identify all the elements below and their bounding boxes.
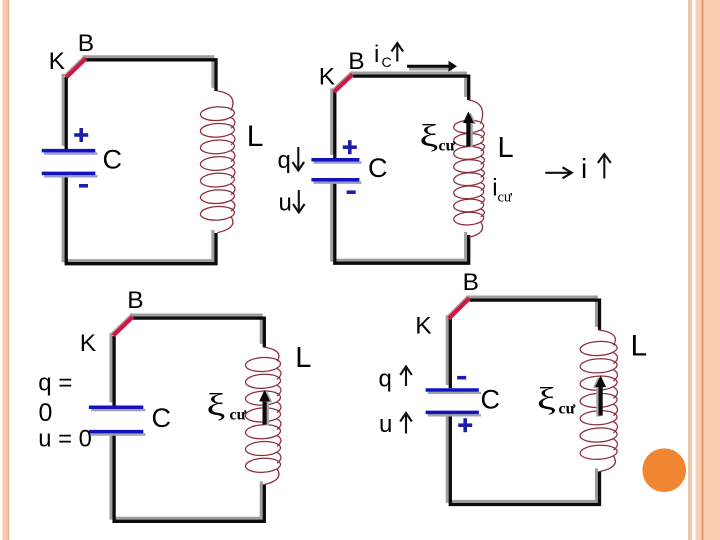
switch K4: [447, 297, 469, 319]
circuit 4 wires: [447, 297, 599, 505]
plus sign C1: [74, 128, 88, 142]
right page border stripes: [688, 0, 692, 540]
annotation: right arrow i up: [545, 167, 571, 178]
svg-text:C: C: [103, 145, 123, 175]
up arrow u 4: [400, 413, 412, 434]
svg-text:C: C: [368, 153, 388, 183]
svg-text:u = 0: u = 0: [38, 426, 92, 453]
svg-text:ξ: ξ: [207, 388, 226, 423]
svg-text:C: C: [382, 54, 392, 70]
svg-text:u: u: [279, 190, 292, 217]
circuit 2 wires: [332, 73, 469, 263]
capacitor C3: [89, 407, 146, 434]
inductor L2 coil: [453, 100, 484, 237]
svg-text:u: u: [379, 411, 392, 438]
minus sign C4: [457, 376, 466, 380]
switch K3: [111, 315, 132, 336]
svg-text:L: L: [498, 132, 514, 164]
switch K2: [332, 73, 352, 92]
circuit 1 wires: [63, 57, 216, 264]
svg-text:cư: cư: [498, 189, 513, 205]
svg-text:ξ: ξ: [420, 119, 439, 154]
current direction arrow (top): [407, 61, 457, 72]
svg-text:K: K: [49, 48, 66, 75]
svg-text:i: i: [374, 41, 379, 68]
switch K1: [64, 57, 85, 78]
svg-text:q: q: [278, 147, 291, 174]
svg-text:K: K: [319, 63, 336, 90]
svg-text:B: B: [78, 30, 94, 57]
capacitor C4: [426, 390, 481, 415]
inductor L4 coil: [580, 330, 618, 472]
self-induction emf arrow 4: [593, 376, 606, 417]
plus sign C2: [343, 140, 357, 154]
annotation up arrow: [598, 154, 611, 179]
svg-text:cư: cư: [559, 401, 576, 418]
down arrow q: [293, 147, 305, 171]
up arrow q 4: [400, 367, 412, 387]
capacitor C1: [42, 151, 98, 177]
minus sign C1: [79, 184, 88, 188]
svg-text:C: C: [152, 403, 172, 433]
svg-text:B: B: [463, 269, 479, 296]
svg-text:ξ: ξ: [537, 382, 556, 417]
self-induction emf arrow 3: [259, 390, 272, 426]
down arrow u: [293, 190, 305, 213]
orange decoration circle: [642, 448, 686, 492]
svg-text:q =: q =: [38, 370, 72, 397]
capacitor C2: [311, 160, 361, 183]
left page border stripe: [3, 0, 9, 540]
svg-text:cư: cư: [230, 407, 247, 424]
self-induction emf arrow 2: [463, 112, 476, 148]
minus sign C2: [347, 190, 356, 194]
svg-text:C: C: [481, 385, 501, 415]
svg-text:K: K: [415, 313, 432, 340]
svg-text:L: L: [295, 342, 311, 374]
inductor L3 coil: [245, 347, 281, 485]
svg-text:B: B: [127, 287, 143, 314]
svg-text:q: q: [379, 366, 392, 393]
inductor L1 coil: [200, 91, 235, 233]
plus sign C4: [458, 418, 472, 432]
up arrow after i_C: [392, 43, 404, 62]
svg-text:cư: cư: [439, 138, 456, 155]
svg-text:0: 0: [39, 399, 53, 427]
svg-text:L: L: [631, 330, 648, 363]
svg-text:L: L: [247, 120, 264, 153]
svg-text:B: B: [348, 48, 364, 75]
circuit 3 wires: [111, 315, 264, 521]
svg-text:K: K: [80, 330, 97, 357]
svg-text:i: i: [581, 153, 587, 184]
